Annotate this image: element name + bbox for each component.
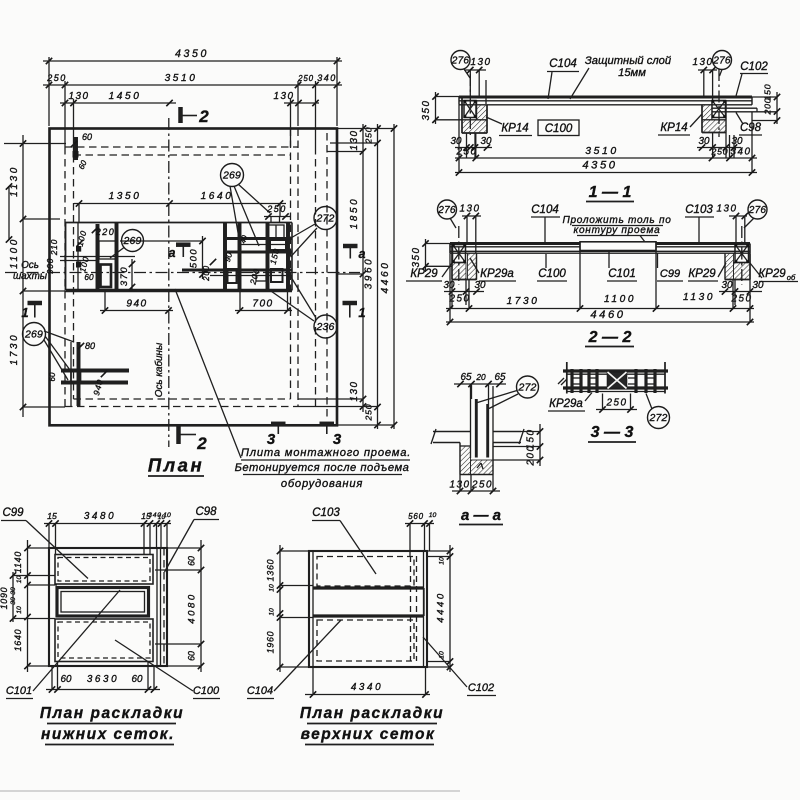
svg-text:1130: 1130 <box>683 292 715 303</box>
svg-text:269: 269 <box>24 329 43 341</box>
label C98 lower mesh <box>165 506 220 572</box>
svg-text:236: 236 <box>315 321 334 333</box>
position circle 269 top <box>221 164 271 251</box>
label C99 <box>1 507 88 579</box>
label KR29a 3-3 <box>548 393 592 412</box>
svg-text:C104: C104 <box>247 685 273 697</box>
svg-text:130: 130 <box>274 91 295 102</box>
section 3-3 tie marks <box>573 378 654 384</box>
position circle 269 bottom-left <box>23 323 75 381</box>
svg-text:4080: 4080 <box>187 592 198 624</box>
label C101 2-2 <box>607 252 637 281</box>
section a-a footing break mark <box>477 463 483 469</box>
svg-text:130: 130 <box>349 130 360 151</box>
svg-text:1850: 1850 <box>349 197 360 229</box>
axis label Os kabiny (rotated) <box>154 342 165 397</box>
svg-text:130: 130 <box>693 57 714 68</box>
label 200 rotated <box>202 259 216 282</box>
left detail tie lines <box>60 257 135 261</box>
svg-text:C99: C99 <box>660 268 680 280</box>
svg-text:C104: C104 <box>549 58 577 70</box>
dimension 130 1450 <box>60 91 176 106</box>
svg-text:269: 269 <box>222 170 241 182</box>
dimension 130 top left 2-2 <box>460 204 481 254</box>
svg-text:1730: 1730 <box>9 333 20 365</box>
dimension 150 200 a-a <box>493 424 543 466</box>
upper mesh middle band <box>313 588 424 616</box>
dimension 60 3630 60 bottom <box>46 674 160 693</box>
section 2-2 left pier axis <box>458 226 460 285</box>
dimension chain 10 4440 10 right <box>436 545 454 672</box>
position circle 276 right 1-1 <box>712 51 731 77</box>
svg-text:3 — 3: 3 — 3 <box>591 424 634 441</box>
section 3-3 central cage (x-box) <box>608 372 627 389</box>
svg-text:276: 276 <box>437 205 456 216</box>
svg-text:1350: 1350 <box>109 191 142 202</box>
svg-text:60: 60 <box>82 132 92 142</box>
svg-text:Бетонируется после подъема: Бетонируется после подъема <box>235 462 410 474</box>
svg-text:1: 1 <box>21 305 28 320</box>
note lay roofing felt <box>562 215 671 242</box>
label C102 upper mesh <box>423 637 496 696</box>
extension lines lower mesh right <box>155 548 201 666</box>
dimension chain 60 4080 60 right <box>187 540 205 672</box>
svg-text:4460: 4460 <box>590 309 625 321</box>
dimension 250 3-3 <box>596 394 637 413</box>
svg-text:10: 10 <box>16 606 23 614</box>
section mark 1 left <box>21 303 42 320</box>
plan vertical axis (Os kabiny) <box>168 118 170 447</box>
dimension 4460 right <box>380 124 397 429</box>
svg-text:700: 700 <box>252 299 273 310</box>
dimension 250 3510 250 340 section 1-1 <box>455 146 757 161</box>
svg-text:C103: C103 <box>685 204 713 216</box>
label C99 2-2 <box>657 253 683 281</box>
position circle 272 plan <box>290 207 337 258</box>
extension lines lower mesh left <box>13 548 57 666</box>
svg-text:10: 10 <box>16 576 23 584</box>
svg-text:30: 30 <box>451 136 462 147</box>
right detail thin rails <box>210 245 292 276</box>
extension lines 2-2 bottom <box>450 253 750 322</box>
aux dimension 1090 lower mesh <box>0 572 16 622</box>
svg-text:65: 65 <box>495 372 506 383</box>
position circle 272 a-a <box>478 376 539 409</box>
svg-text:КР29: КР29 <box>688 268 716 280</box>
section 3-3 bottom chord <box>563 388 668 392</box>
svg-text:200: 200 <box>526 445 537 467</box>
svg-text:шахты: шахты <box>13 271 48 282</box>
svg-text:130: 130 <box>69 91 90 102</box>
section mark a left <box>169 245 191 260</box>
svg-text:об: об <box>787 273 796 282</box>
svg-text:нижних сеток.: нижних сеток. <box>41 726 175 743</box>
svg-text:250: 250 <box>471 480 493 491</box>
svg-text:1: 1 <box>358 305 365 320</box>
svg-text:900: 900 <box>45 258 55 274</box>
section 2-2 slab mid lines <box>450 246 750 248</box>
band thick anchor bar B <box>115 223 119 291</box>
label C100 2-2 <box>537 254 567 281</box>
svg-text:План: План <box>148 455 204 476</box>
dimensions 30 30 right pier 2-2 <box>719 280 764 305</box>
left detail frame rect <box>99 241 116 259</box>
svg-text:3510: 3510 <box>165 73 198 84</box>
dimension 4350 <box>43 48 342 64</box>
section 3-3 top chord <box>563 371 668 374</box>
svg-text:30: 30 <box>699 136 710 147</box>
svg-text:130: 130 <box>471 57 492 68</box>
svg-text:30: 30 <box>722 280 733 291</box>
svg-text:Защитный слой: Защитный слой <box>585 55 671 67</box>
svg-text:200: 200 <box>202 265 211 282</box>
dimension chain right 130 1850 130 <box>349 124 366 412</box>
upper mesh left double edge <box>312 551 314 667</box>
scan artifact line <box>0 790 460 792</box>
svg-text:2: 2 <box>196 434 207 453</box>
section mark 2 bottom <box>179 426 208 453</box>
section 1-1 right pier hatch <box>702 105 726 133</box>
label 60 rotated <box>48 372 57 381</box>
svg-text:C100: C100 <box>545 123 573 135</box>
section 2-2 slab end edges <box>450 244 750 254</box>
svg-text:130: 130 <box>460 204 481 215</box>
svg-text:500: 500 <box>188 248 199 268</box>
lower mesh outer boundary <box>49 548 167 666</box>
position circle 276 left 2-2 <box>437 200 456 228</box>
section mark 2 top <box>181 107 210 126</box>
label C100 lower mesh <box>115 640 220 699</box>
extension for 1350 <box>79 204 280 224</box>
section mark 3 left <box>267 424 286 448</box>
section mark a right <box>343 246 366 261</box>
svg-text:1100: 1100 <box>604 294 636 305</box>
svg-text:3480: 3480 <box>84 511 116 522</box>
label C103 <box>312 507 376 574</box>
svg-text:15мм: 15мм <box>618 67 646 79</box>
dimension chain lower mesh left <box>10 540 31 672</box>
svg-text:10: 10 <box>439 557 446 565</box>
label KR14 left <box>486 117 532 136</box>
section a-a wall faces <box>471 386 494 458</box>
svg-text:3630: 3630 <box>87 674 119 685</box>
svg-text:1640: 1640 <box>201 191 234 202</box>
label C98 1-1 <box>736 113 762 136</box>
svg-text:Ось: Ось <box>21 260 39 271</box>
svg-text:220: 220 <box>95 227 116 237</box>
section 2-2 right pier hatch <box>725 253 750 280</box>
lower mesh right strip C98 <box>157 548 164 666</box>
svg-text:C103: C103 <box>312 507 340 519</box>
section a-a floor slab right <box>493 432 521 443</box>
dimension 700 below band <box>235 291 292 314</box>
section 1-1 slab top chord <box>459 95 752 98</box>
svg-text:30: 30 <box>481 136 492 147</box>
section a-a rebar bars 272 <box>476 399 487 458</box>
section mark 3 right <box>320 424 342 448</box>
opening band side edges <box>66 223 293 291</box>
svg-text:250: 250 <box>364 127 374 145</box>
svg-text:3510: 3510 <box>585 146 619 157</box>
svg-text:КР14: КР14 <box>501 123 528 135</box>
section mark 1 right <box>343 303 366 320</box>
dimension 15 3480 15 340 10 10 top <box>44 511 171 527</box>
svg-text:276: 276 <box>712 56 731 67</box>
section 1-1 left pier axis <box>469 74 471 137</box>
svg-text:1450: 1450 <box>109 91 142 102</box>
title 3-3 <box>588 424 636 442</box>
svg-text:272: 272 <box>517 382 536 394</box>
dimension 4460 section 2-2 <box>446 309 754 325</box>
dimension 65 20 65 a-a <box>454 372 506 404</box>
right detail top frame <box>268 225 284 238</box>
plan horizontal axis (Os shakhty) <box>5 272 360 274</box>
dimension 4340 bottom upper mesh <box>305 667 430 698</box>
svg-text:370: 370 <box>118 266 129 286</box>
svg-text:C102: C102 <box>740 61 768 73</box>
note text line 3 <box>281 478 363 490</box>
dimension 200 150 right edge 1-1 <box>752 84 780 124</box>
dimension 130 top right <box>274 91 319 106</box>
section a-a floor slab left <box>433 432 471 443</box>
extension lines left dims <box>4 144 66 408</box>
dimension 250 right pier 2-2 <box>731 280 753 309</box>
axis label Os shakhty <box>13 260 48 282</box>
title 1-1 <box>586 184 634 202</box>
svg-text:60: 60 <box>48 372 57 381</box>
dimension 130 top right 2-2 <box>717 204 748 245</box>
dimension 350 section 1-1 <box>421 92 462 124</box>
right detail thick rails <box>182 239 292 271</box>
plan hidden wall lines right strip <box>316 133 328 420</box>
lower mesh bottom sheet C100 <box>55 619 153 662</box>
aux dimension line far left <box>6 183 12 242</box>
svg-text:130: 130 <box>717 204 738 215</box>
band thin stud line left <box>77 223 79 290</box>
upper mesh right strip C102 dashed <box>411 551 424 667</box>
svg-text:30: 30 <box>475 280 486 291</box>
svg-text:30: 30 <box>753 280 764 291</box>
dimension row 250 3510 250 340 <box>43 73 342 88</box>
svg-text:C100: C100 <box>538 268 566 280</box>
lower mesh title line 2 <box>41 726 175 745</box>
svg-text:10: 10 <box>429 512 437 519</box>
svg-text:350: 350 <box>411 247 422 268</box>
plan title <box>148 455 204 477</box>
svg-text:80: 80 <box>85 341 95 351</box>
svg-text:4460: 4460 <box>380 261 391 294</box>
dimension 370 rotated <box>118 259 135 291</box>
label KR29a left <box>470 258 516 281</box>
label C104 1-1 <box>547 58 579 99</box>
plan bottom-left embed rails <box>61 371 129 383</box>
svg-text:340: 340 <box>317 73 337 83</box>
dimension chain upper mesh left <box>266 545 284 672</box>
label KR29 right <box>688 263 726 281</box>
svg-text:a — a: a — a <box>461 507 501 524</box>
svg-text:4350: 4350 <box>175 48 209 60</box>
lower mesh middle sheet C101 <box>57 588 149 617</box>
svg-text:a: a <box>359 247 366 261</box>
section 2-2 slab top chord left <box>450 242 580 245</box>
section 1-1 left pier outline <box>462 98 487 133</box>
label C103 2-2 <box>685 204 714 243</box>
svg-text:250: 250 <box>606 398 628 409</box>
left detail embed plate (thick rect) <box>101 265 112 288</box>
label C102 1-1 <box>736 61 768 96</box>
label KR14 right <box>658 114 702 135</box>
section 3-3 vertical bars <box>572 369 655 393</box>
svg-text:1100: 1100 <box>9 237 20 269</box>
svg-text:4440: 4440 <box>436 591 447 623</box>
svg-text:КР29: КР29 <box>410 268 438 280</box>
label 80 <box>78 341 95 351</box>
svg-text:20: 20 <box>475 372 486 382</box>
svg-text:10: 10 <box>269 608 276 616</box>
section 1-1 C98 mesh lines right <box>712 108 757 112</box>
svg-text:60: 60 <box>187 651 197 661</box>
svg-text:3: 3 <box>333 431 342 448</box>
dimension 250 band top right <box>264 204 290 223</box>
label KR29 left <box>406 263 452 281</box>
upper mesh title line 2 <box>301 726 436 745</box>
dimension 1350 1640 <box>74 191 286 207</box>
section 2-2 left pier hatch <box>452 253 477 280</box>
section 2-2 right pier outline <box>725 253 750 280</box>
position circle 236 plan <box>268 271 337 339</box>
dimension 130 250 a-a <box>450 475 500 495</box>
dimension 130 above right pier <box>693 57 717 100</box>
svg-text:130: 130 <box>349 381 360 402</box>
rebar cage KR29 left (x-box) <box>452 244 466 263</box>
plan corner embed detail top-left <box>71 132 92 171</box>
svg-text:250: 250 <box>711 147 729 157</box>
label C104 upper mesh <box>247 620 341 699</box>
title 2-2 <box>585 329 634 347</box>
svg-text:1360: 1360 <box>266 559 276 582</box>
svg-text:269: 269 <box>122 235 141 247</box>
label C101 lower mesh <box>6 590 120 699</box>
svg-text:250: 250 <box>731 294 753 305</box>
svg-text:60: 60 <box>132 674 143 685</box>
dimensions 30 30 left pier 2-2 <box>444 280 486 305</box>
svg-text:210: 210 <box>49 239 59 256</box>
svg-text:Ось кабины: Ось кабины <box>154 342 165 397</box>
dimension chain left 1130 1100 1730 <box>9 135 26 417</box>
svg-text:276: 276 <box>451 56 470 67</box>
svg-text:C104: C104 <box>531 204 559 216</box>
svg-text:560: 560 <box>408 512 424 521</box>
section 1-1 slab end edges <box>459 97 752 105</box>
band thick anchor bar A <box>96 224 100 290</box>
left detail small embeds <box>76 246 81 268</box>
label KR29ob far right <box>750 263 798 282</box>
lower mesh title line 1 <box>40 705 184 724</box>
extension lines 1-1 bottom <box>459 105 752 173</box>
svg-text:30: 30 <box>732 136 743 147</box>
upper mesh title line 1 <box>300 705 444 724</box>
extension lines right dims <box>298 129 394 426</box>
dimension 560 10 top upper mesh <box>405 512 436 556</box>
section 3-3 break mark <box>558 378 567 385</box>
rebar cage KR14 right (x-box) <box>712 100 727 118</box>
note text line 1 <box>241 447 411 460</box>
opening band top edge <box>66 222 293 224</box>
svg-text:30: 30 <box>444 280 455 291</box>
svg-text:КР29: КР29 <box>758 268 786 280</box>
dimension chain right 250 3960 250 <box>364 124 381 429</box>
svg-text:оборудования: оборудования <box>281 478 363 490</box>
dimension 130 above left pier <box>464 57 491 104</box>
plan bottom-left embed detail bars <box>71 342 79 406</box>
svg-text:276: 276 <box>748 205 767 216</box>
position circle 276 left 1-1 <box>451 51 470 79</box>
svg-text:верхних сеток: верхних сеток <box>301 726 436 743</box>
dimension 940 below band <box>100 291 173 314</box>
opening band bottom edge (thick) <box>66 289 293 292</box>
section 1-1 slab bottom line <box>459 104 752 106</box>
extension lines upper mesh left <box>280 551 313 667</box>
section a-a hatched footing <box>460 443 493 475</box>
plan outer wall rectangle <box>50 129 338 426</box>
label C104 2-2 <box>531 204 560 243</box>
svg-text:1130: 1130 <box>9 165 20 197</box>
svg-text:контуру проема: контуру проема <box>574 225 661 236</box>
section 1-1 right pier axis <box>718 69 720 137</box>
plan hidden opening outline (outer dashed) <box>65 129 298 407</box>
rebar cage KR29 right (x-box) <box>735 244 750 263</box>
note leader line <box>175 289 241 458</box>
svg-text:350: 350 <box>421 100 432 121</box>
upper mesh outer boundary <box>309 551 427 667</box>
section 1-1 slab mid line <box>459 100 752 102</box>
position circle 272 3-3 <box>646 394 670 429</box>
svg-text:C99: C99 <box>2 507 24 519</box>
svg-text:КР29а: КР29а <box>480 268 514 280</box>
section 2-2 middle plate C101 <box>580 242 656 253</box>
svg-text:C98: C98 <box>195 506 217 518</box>
section 2-2 slab bottom lines <box>450 251 750 253</box>
svg-text:60: 60 <box>187 556 197 566</box>
section 3-3 end bars <box>567 362 665 394</box>
svg-text:C101: C101 <box>608 268 636 280</box>
svg-text:940: 940 <box>126 299 147 310</box>
svg-text:C100: C100 <box>193 685 220 697</box>
svg-text:План раскладки: План раскладки <box>300 705 444 722</box>
svg-text:C102: C102 <box>468 682 494 694</box>
dimensions 30 30 left pier <box>451 133 492 158</box>
svg-text:C101: C101 <box>6 685 32 697</box>
svg-text:a: a <box>169 246 176 260</box>
section 1-1 right pier outline <box>702 100 726 133</box>
svg-text:2: 2 <box>198 107 209 126</box>
right detail thick bars <box>225 223 288 291</box>
dimensions 30 30 right pier <box>697 133 743 159</box>
svg-text:272: 272 <box>648 412 667 424</box>
section 1-1 left pier hatch <box>462 105 487 133</box>
dimension 350 section 2-2 <box>411 239 452 272</box>
svg-text:4350: 4350 <box>582 160 617 172</box>
dimension 500 rotated <box>120 236 206 279</box>
rebar cage KR14 left (x-box) <box>464 100 477 118</box>
svg-text:КР29а: КР29а <box>549 398 583 410</box>
svg-text:200: 200 <box>763 98 773 116</box>
lower mesh top sheet C99 <box>55 555 153 585</box>
svg-text:1640: 1640 <box>13 629 23 652</box>
svg-text:65: 65 <box>461 372 472 383</box>
small labels right detail <box>222 234 281 286</box>
small labels left detail <box>45 227 115 282</box>
